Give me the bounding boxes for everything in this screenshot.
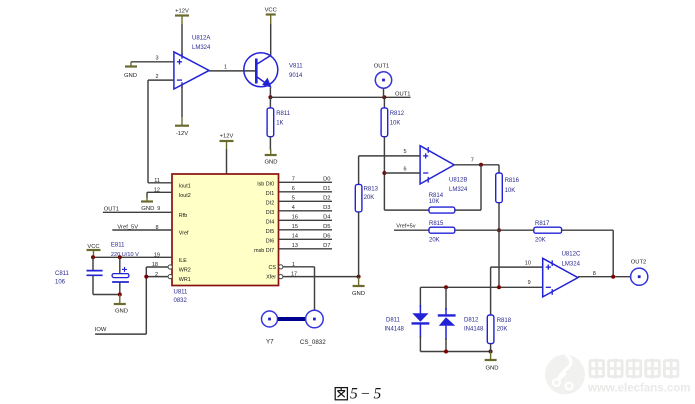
svg-text:Vref+5v: Vref+5v xyxy=(396,224,415,230)
svg-text:C811: C811 xyxy=(55,271,70,277)
svg-text:5: 5 xyxy=(403,149,406,155)
power +12V (op-amp U812A supply) xyxy=(175,8,189,24)
svg-text:E811: E811 xyxy=(111,243,125,249)
wire WR1 pin 2 xyxy=(146,276,168,278)
junction emitter node xyxy=(268,95,272,99)
transistor V811 9014 xyxy=(244,53,278,88)
svg-text:11: 11 xyxy=(154,178,160,184)
svg-text:DI6: DI6 xyxy=(266,239,274,245)
wire ILE pin 19 from VCC xyxy=(93,256,172,258)
wire data bit D0 (pin 7) xyxy=(279,181,332,183)
junction R815-R816-R817 xyxy=(497,228,501,232)
svg-text:WR2: WR2 xyxy=(179,268,191,274)
ground below R818 xyxy=(485,352,499,372)
wire D811 top lead xyxy=(419,287,421,307)
resistor R816 10K xyxy=(496,173,503,203)
connector CS_0832 xyxy=(306,310,324,328)
junction OUT1 node xyxy=(382,95,386,99)
wire +12V into DAC top xyxy=(226,149,228,174)
resistor R812 10K xyxy=(381,108,388,137)
svg-text:R815: R815 xyxy=(429,221,444,227)
wire CS pin 1 xyxy=(283,266,315,268)
wire feedback vertical right xyxy=(480,165,482,210)
svg-text:106: 106 xyxy=(55,279,66,285)
wire pin 2 (-) input xyxy=(148,79,174,81)
connector Y7 xyxy=(262,311,278,327)
svg-text:OUT1: OUT1 xyxy=(104,206,119,212)
junction R818 bottom xyxy=(489,350,493,354)
wire cap bottoms xyxy=(93,294,120,296)
op-amp U812B (LM324) xyxy=(420,146,454,184)
svg-text:17: 17 xyxy=(291,272,297,278)
svg-text:U812C: U812C xyxy=(562,251,581,257)
wire D812 bottom lead xyxy=(445,338,447,352)
wire R811 bottom xyxy=(269,137,271,150)
svg-text:Iout2: Iout2 xyxy=(179,193,191,199)
svg-text:20K: 20K xyxy=(535,238,546,244)
svg-text:10: 10 xyxy=(525,260,531,266)
svg-text:16: 16 xyxy=(292,214,298,220)
wire R812 bottom to pin6 and feedback xyxy=(383,137,385,210)
junction cap ground node xyxy=(118,293,122,297)
diode D812 1N4148 xyxy=(438,308,456,340)
svg-text:Xfer: Xfer xyxy=(266,275,276,281)
svg-text:DI3: DI3 xyxy=(266,210,274,216)
wire U812B pin 6 (-) xyxy=(384,172,420,174)
wire Vref+5v to R815 xyxy=(394,229,429,231)
wire R813 bottom to Xfer/GND xyxy=(358,212,360,277)
svg-text:CS_0832: CS_0832 xyxy=(300,339,326,346)
wire U812A output to V811 base xyxy=(209,70,255,72)
wire IOW horizontal xyxy=(95,333,146,335)
capacitor C811 106 xyxy=(87,271,103,276)
wire CS down to connector CS_0832 xyxy=(314,267,316,311)
wire Rfb to net OUT1 xyxy=(103,211,172,213)
pin bubble WR2 xyxy=(168,265,172,269)
power VCC (transistor collector) xyxy=(265,8,277,25)
svg-text:5: 5 xyxy=(374,386,382,403)
svg-text:1K: 1K xyxy=(276,121,283,127)
svg-text:D812: D812 xyxy=(464,318,479,324)
wire U812C output pin 8 xyxy=(578,276,630,278)
ground below R811 xyxy=(264,149,277,165)
junction WR1-IOW xyxy=(144,275,148,279)
svg-text:OUT1: OUT1 xyxy=(395,91,410,97)
svg-text:lsb DI0: lsb DI0 xyxy=(257,182,274,188)
wire U812B output pin 7 xyxy=(454,164,499,166)
svg-text:9: 9 xyxy=(528,280,531,286)
junction D812 bottom xyxy=(444,350,448,354)
wire R813 top lead xyxy=(358,156,360,185)
svg-text:DI5: DI5 xyxy=(266,229,274,235)
wire into DAC pin 11 xyxy=(148,182,172,184)
svg-text:GND: GND xyxy=(115,309,128,315)
wire IOW vertical xyxy=(145,267,147,334)
op-amp U812C (LM324) xyxy=(543,258,578,297)
svg-text:LM324: LM324 xyxy=(449,187,468,193)
svg-text:-12V: -12V xyxy=(176,131,188,137)
svg-text:R814: R814 xyxy=(429,193,444,199)
svg-text:R816: R816 xyxy=(505,178,520,184)
svg-text:D6: D6 xyxy=(323,234,330,240)
wire C811 top lead xyxy=(92,257,94,270)
svg-text:18: 18 xyxy=(152,262,158,268)
svg-text:2: 2 xyxy=(156,74,159,80)
svg-text:D0: D0 xyxy=(323,177,330,183)
svg-text:www.elecfans.com: www.elecfans.com xyxy=(587,383,690,395)
wire pin10 down to R818 xyxy=(490,267,492,315)
svg-text:R811: R811 xyxy=(276,111,291,117)
svg-text:DI2: DI2 xyxy=(266,201,274,207)
pin bubble CS xyxy=(279,265,283,269)
svg-text:GND: GND xyxy=(264,159,277,165)
svg-text:6: 6 xyxy=(292,186,295,192)
wire R816 bottom lead xyxy=(498,203,500,231)
svg-text:19: 19 xyxy=(154,253,160,259)
wire junction down to pin 9 net xyxy=(498,230,500,287)
svg-text:LM324: LM324 xyxy=(192,45,211,51)
wire feedback pin2 down to Iout1 xyxy=(147,80,149,183)
caption 图5-5 xyxy=(335,388,347,400)
ground at Xfer / R813 xyxy=(352,277,365,297)
resistor R814 10K xyxy=(429,207,455,213)
resistor R813 20K xyxy=(355,184,362,212)
wire data bit D7 (pin 13) xyxy=(279,248,332,250)
power VCC (ILE / bypass caps) xyxy=(87,244,101,257)
wire OUT1 net horizontal xyxy=(270,96,410,98)
junction at U812B pin 6 xyxy=(382,171,386,175)
svg-text:5: 5 xyxy=(350,386,358,403)
wire E811 bottom lead xyxy=(119,282,121,295)
junction OUT2 feedback xyxy=(611,275,615,279)
svg-text:20K: 20K xyxy=(497,327,508,333)
junction pin9-R815 net xyxy=(497,285,501,289)
wire R814 to feedback vertical xyxy=(455,209,481,211)
wire R818 bottom lead xyxy=(490,344,492,352)
wire +12V to U812A V+ stub xyxy=(181,24,183,57)
svg-text:OUT1: OUT1 xyxy=(374,63,389,69)
svg-text:R818: R818 xyxy=(497,318,512,324)
svg-text:14: 14 xyxy=(292,233,298,239)
svg-text:8: 8 xyxy=(155,225,158,231)
svg-text:R817: R817 xyxy=(535,221,550,227)
svg-text:20K: 20K xyxy=(429,238,440,244)
svg-text:9014: 9014 xyxy=(289,73,303,79)
svg-text:15: 15 xyxy=(292,224,298,230)
pin bubble Xfer xyxy=(279,275,283,279)
svg-text:+12V: +12V xyxy=(175,8,189,14)
diode D811 1N4148 xyxy=(412,305,430,338)
svg-text:4: 4 xyxy=(292,205,295,211)
resistor R818 20K xyxy=(487,315,494,344)
watermark text 电子发烧友 xyxy=(590,359,678,379)
wire data bit D1 (pin 6) xyxy=(279,191,332,193)
svg-text:Vref_5V: Vref_5V xyxy=(117,224,138,230)
wire U812C pin 9 (-) net xyxy=(420,286,542,288)
svg-text:WR1: WR1 xyxy=(179,277,191,283)
svg-text:GND: GND xyxy=(352,291,365,297)
wire thick Y7 to CS_0832 xyxy=(278,317,306,321)
wire VCC to V811 collector xyxy=(270,24,272,56)
svg-text:U812B: U812B xyxy=(449,177,467,183)
svg-text:10K: 10K xyxy=(429,199,440,205)
svg-text:CS: CS xyxy=(269,265,277,271)
svg-text:220 U/10 V: 220 U/10 V xyxy=(111,252,139,258)
svg-text:13: 13 xyxy=(292,243,298,249)
ground at U812A pin 3 xyxy=(124,62,137,79)
svg-text:GND: GND xyxy=(485,366,498,372)
svg-text:D3: D3 xyxy=(323,205,330,211)
svg-text:R813: R813 xyxy=(364,187,379,193)
svg-text:D5: D5 xyxy=(323,224,330,230)
svg-text:Iout1: Iout1 xyxy=(179,183,191,189)
svg-text:V811: V811 xyxy=(289,63,303,69)
svg-text:D2: D2 xyxy=(323,196,330,202)
connector OUT2 xyxy=(631,268,648,285)
svg-text:VCC: VCC xyxy=(87,244,99,250)
wire Vref pin 8 xyxy=(112,229,172,231)
power -12V (op-amp U812A) xyxy=(175,117,189,137)
svg-text:msb DI7: msb DI7 xyxy=(254,248,274,254)
svg-text:1: 1 xyxy=(292,262,295,268)
wire U812B pin 5 (+) xyxy=(359,155,421,157)
svg-text:IN4148: IN4148 xyxy=(464,326,484,332)
svg-text:DI1: DI1 xyxy=(266,191,274,197)
junction output-feedback xyxy=(479,163,483,167)
wire E811 top lead xyxy=(119,257,121,273)
wire data bit D3 (pin 4) xyxy=(279,210,332,212)
wire U812C pin 10 (+) xyxy=(491,266,543,268)
svg-text:20K: 20K xyxy=(364,195,375,201)
wire data bit D5 (pin 15) xyxy=(279,229,332,231)
svg-text:Y7: Y7 xyxy=(266,338,274,345)
svg-text:8: 8 xyxy=(593,271,596,277)
op-amp U812A (LM324) xyxy=(174,52,209,89)
wire to R811 top xyxy=(269,97,271,108)
svg-text:DI4: DI4 xyxy=(266,220,274,226)
wire R817 to output feedback xyxy=(562,229,614,231)
svg-text:0832: 0832 xyxy=(174,298,188,304)
wire D811 bottom lead xyxy=(419,336,421,352)
ground below capacitors xyxy=(114,295,128,315)
wire diode bottom bus xyxy=(420,351,490,353)
svg-text:2: 2 xyxy=(155,272,158,278)
wire OUT1 connector stem xyxy=(383,88,385,97)
svg-text:+12V: +12V xyxy=(220,133,234,139)
svg-text:5: 5 xyxy=(292,195,295,201)
wire to R812 top xyxy=(383,97,385,108)
svg-text:6: 6 xyxy=(403,167,406,173)
svg-text:D1: D1 xyxy=(323,186,330,192)
svg-text:−: − xyxy=(361,386,370,403)
wire emitter down xyxy=(269,88,271,98)
junction Xfer-R813-GND xyxy=(357,275,361,279)
svg-text:R812: R812 xyxy=(390,111,405,117)
wire Xfer pin 17 xyxy=(283,276,359,278)
resistor R811 1K xyxy=(267,108,274,137)
junction VCC-C811 xyxy=(91,255,95,259)
wire DAC pin 12 Iout2 xyxy=(147,191,172,193)
wire C811 bottom lead xyxy=(92,275,94,294)
svg-text:D811: D811 xyxy=(386,318,401,324)
power +12V (DAC supply) xyxy=(220,133,234,149)
resistor R817 20K xyxy=(534,227,562,233)
svg-text:3: 3 xyxy=(156,56,159,62)
svg-text:7: 7 xyxy=(471,157,474,163)
connector OUT1 xyxy=(375,72,391,88)
wire D812 top lead xyxy=(445,287,447,310)
svg-text:GND: GND xyxy=(141,206,154,212)
svg-text:10K: 10K xyxy=(505,188,516,194)
wire feedback to R814 xyxy=(384,209,429,211)
svg-text:Vref: Vref xyxy=(179,231,189,237)
svg-text:D7: D7 xyxy=(323,243,330,249)
svg-text:ILE: ILE xyxy=(179,258,187,264)
wire pin12 down to ground xyxy=(146,192,148,198)
svg-text:IN4148: IN4148 xyxy=(385,326,405,332)
capacitor E811 electrolytic 220U/10V xyxy=(112,267,129,282)
resistor R815 20K xyxy=(429,227,455,233)
wire R815 to junction xyxy=(455,229,499,231)
wire feedback down to OUT2 node xyxy=(612,230,614,277)
svg-text:GND: GND xyxy=(124,73,137,79)
wire WR2 pin 18 xyxy=(146,266,168,268)
svg-text:7: 7 xyxy=(292,176,295,182)
svg-text:OUT2: OUT2 xyxy=(631,260,646,266)
svg-text:10K: 10K xyxy=(390,121,401,127)
wire junction to R817 xyxy=(499,229,534,231)
ground at Iout2 (pin 12) xyxy=(141,195,154,212)
wire pin 3 (+) input xyxy=(131,61,174,63)
junction VCC-E811 xyxy=(118,255,122,259)
wire U812A V- to -12V xyxy=(181,85,183,118)
svg-text:1: 1 xyxy=(224,64,227,70)
svg-text:LM324: LM324 xyxy=(562,261,581,267)
svg-text:U811: U811 xyxy=(174,290,189,296)
svg-text:U812A: U812A xyxy=(192,35,210,41)
svg-text:Rfb: Rfb xyxy=(179,213,187,219)
pin bubble WR1 xyxy=(168,275,172,279)
svg-text:VCC: VCC xyxy=(265,8,277,14)
wire R816 top lead xyxy=(498,165,500,173)
svg-text:D4: D4 xyxy=(323,215,331,221)
IC U811 DAC0832 xyxy=(172,174,279,286)
wire data bit D4 (pin 16) xyxy=(279,219,332,221)
svg-text:IOW: IOW xyxy=(95,327,107,333)
junction D812 top xyxy=(444,285,448,289)
wire data bit D2 (pin 5) xyxy=(279,200,332,202)
wire data bit D6 (pin 14) xyxy=(279,238,332,240)
watermark elecfans logo xyxy=(545,355,585,395)
svg-text:9: 9 xyxy=(157,206,160,212)
